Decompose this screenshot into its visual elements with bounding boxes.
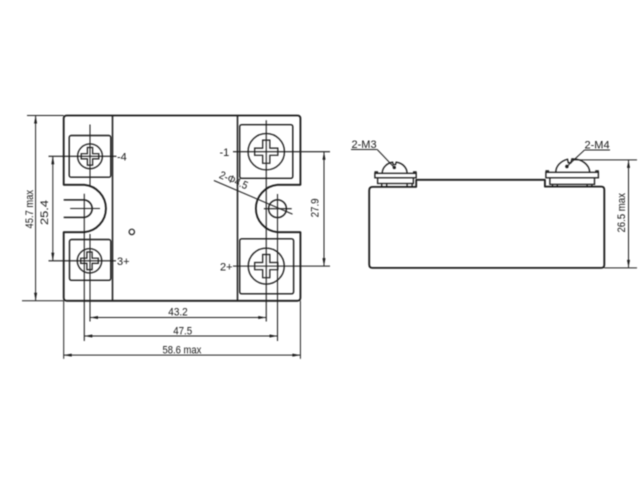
svg-text:3+: 3+ [117, 256, 130, 268]
svg-text:2+: 2+ [220, 261, 233, 273]
svg-text:45.7 max: 45.7 max [24, 190, 36, 229]
svg-text:26.5 max: 26.5 max [616, 193, 628, 233]
svg-text:2-M3: 2-M3 [352, 139, 377, 151]
svg-text:-4: -4 [117, 152, 127, 164]
svg-text:43.2: 43.2 [168, 307, 188, 319]
svg-text:27.9: 27.9 [309, 198, 321, 217]
svg-text:25.4: 25.4 [39, 200, 51, 225]
svg-text:58.6 max: 58.6 max [163, 344, 202, 356]
svg-text:-1: -1 [220, 147, 230, 159]
svg-text:47.5: 47.5 [173, 325, 192, 337]
svg-text:2-M4: 2-M4 [585, 140, 610, 152]
